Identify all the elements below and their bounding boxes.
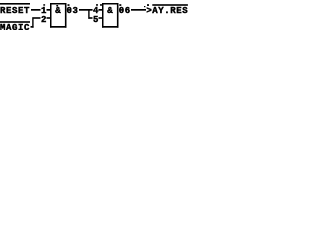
speck above U1 ampersand	[56, 5, 58, 7]
wire pin 2 stub into U1	[47, 17, 51, 19]
wire MAGIC vertical riser	[32, 17, 33, 28]
wire U2 output	[131, 9, 146, 11]
node MAGIC (active-low) overline	[0, 21, 30, 23]
svg-text:03: 03	[67, 6, 79, 16]
speck above pin 06 label	[119, 4, 121, 6]
svg-text:AY.RES: AY.RES	[152, 6, 188, 16]
svg-text:5: 5	[93, 15, 99, 25]
wire U1 output	[79, 9, 93, 11]
svg-text:&: &	[107, 6, 113, 16]
wire RESET to pin 1	[31, 9, 41, 11]
speck above pin 4 (left)	[96, 4, 98, 6]
svg-text:&: &	[55, 6, 61, 16]
wire riser to pin 2	[34, 17, 41, 19]
NAND gate U2 box	[102, 3, 119, 28]
svg-text:2: 2	[41, 15, 47, 25]
wire junction drop to pin 5	[88, 9, 89, 19]
svg-text:MAGIC: MAGIC	[0, 23, 30, 30]
svg-text:06: 06	[119, 6, 131, 16]
node RESET (active-low) overline	[0, 3, 30, 5]
speck above pin 03 label	[68, 4, 70, 6]
wire pin 5 stub into U2	[99, 17, 103, 19]
svg-text:RESET: RESET	[0, 6, 30, 16]
wire MAGIC horizontal	[31, 26, 34, 28]
wire pin 1 stub into U1	[47, 9, 51, 11]
speck above pin 1 (cropped row remnant)	[43, 4, 45, 6]
wire drop to pin 5 horizontal	[90, 17, 93, 19]
speck left of arrowhead	[144, 6, 145, 7]
speck above pin 4 (right)	[100, 4, 102, 6]
wire pin 4 stub into U2	[99, 9, 103, 11]
speck above arrowhead	[147, 4, 149, 6]
node AY.RES (active-low) overline	[152, 4, 188, 6]
NAND gate U1 box	[50, 3, 67, 28]
